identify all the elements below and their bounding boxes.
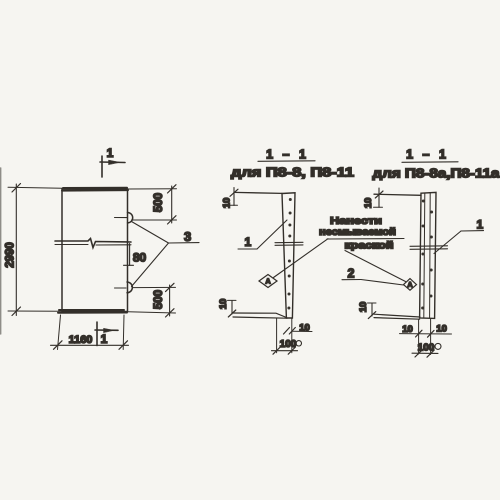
- break line lower: [55, 244, 131, 247]
- svg-text:1: 1: [245, 235, 252, 249]
- strip bar right inner line right: [429, 193, 432, 317]
- dim 500 bottom ticks: [166, 283, 175, 317]
- strip bar right inner line left: [424, 194, 425, 318]
- title underline middle: [258, 160, 315, 163]
- panel bottom edge thick line: [58, 310, 127, 313]
- dim 80 line: [129, 244, 131, 266]
- dim 10 middle top tick slash: [230, 189, 238, 196]
- svg-text:А: А: [407, 282, 412, 289]
- leader from top hook to label 3: [132, 222, 169, 244]
- svg-text:для П8-8а,П8-11а: для П8-8а,П8-11а: [373, 167, 500, 181]
- break line across right bar: [410, 246, 448, 250]
- panel top edge thick line: [62, 188, 128, 191]
- label 2 leader to right diamond: [361, 280, 404, 286]
- lifting hook bottom: [127, 282, 132, 293]
- dim 2990 line: [15, 184, 17, 316]
- svg-text:80: 80: [133, 251, 147, 265]
- dim 500 top ticks: [168, 185, 177, 224]
- bottom flange middle lower line: [233, 317, 287, 318]
- leader diamond middle to text: [274, 239, 329, 278]
- dim 10 middle top tick bottom: [229, 204, 238, 206]
- dim 10 right bottom line: [371, 303, 373, 316]
- svg-text:2: 2: [348, 267, 355, 281]
- dim 500 bottom line: [169, 285, 171, 316]
- svg-text:10: 10: [358, 302, 369, 313]
- svg-text:10: 10: [299, 323, 310, 334]
- svg-text:1: 1: [477, 218, 484, 232]
- leader from bottom hook to label 3: [132, 243, 169, 287]
- bottom flange right upper line: [374, 314, 420, 317]
- dim 10-10 right shelf line: [400, 333, 452, 335]
- svg-text:Нанести: Нанести: [330, 216, 382, 227]
- dim 80 tick bottom: [124, 264, 134, 266]
- dim 1160 extension left: [58, 315, 61, 350]
- dim 500 top extension lower: [132, 219, 177, 221]
- svg-text:1 – 1: 1 – 1: [266, 148, 309, 162]
- dim 10 middle top line: [233, 188, 235, 206]
- title underline right: [402, 161, 458, 164]
- dim 500 bottom extension lower: [128, 312, 176, 313]
- svg-text:1 – 1: 1 – 1: [406, 148, 449, 162]
- dim 500 top line: [171, 186, 173, 223]
- dim 10 right top line: [378, 188, 380, 207]
- label 1 right shelf: [461, 230, 484, 232]
- anchor dots right bar: [421, 200, 433, 310]
- svg-text:100: 100: [418, 343, 435, 354]
- svg-text:10: 10: [402, 324, 413, 335]
- hook bottom stem: [115, 287, 127, 289]
- strip bar right outline: [420, 192, 436, 318]
- dim 10 right top tick: [374, 206, 383, 208]
- break line upper with zigzag: [55, 239, 131, 248]
- dim 10 strip middle: slashes: [284, 328, 296, 335]
- dim 10 middle bottom slash: [228, 310, 236, 317]
- anchor dots middle bar: [287, 198, 291, 310]
- marking diamond middle: [259, 275, 277, 288]
- dim 10 strip middle shelf: [292, 330, 312, 332]
- svg-text:для П8-8, П8-11: для П8-8, П8-11: [231, 166, 354, 180]
- svg-text:500: 500: [153, 290, 165, 309]
- section marker 1 top: cut stroke: [101, 156, 103, 177]
- svg-text:10: 10: [363, 198, 374, 209]
- dim 2990 tick bottom: [12, 307, 21, 316]
- dim 1160 line: [51, 344, 129, 346]
- label 2 shelf: [342, 279, 361, 281]
- dim 10-10 right slashes: [416, 330, 435, 337]
- dim 2990 tick top: [12, 184, 21, 193]
- leader note text to right diamond: [345, 251, 406, 282]
- dim 100 middle slashes: [273, 347, 296, 354]
- svg-text:500: 500: [153, 193, 165, 212]
- svg-text:10: 10: [218, 299, 229, 310]
- dim 1160 ticks: [54, 341, 128, 350]
- section marker 1 top: view arrow: [100, 161, 125, 164]
- dim 10 right bottom slash: [368, 312, 376, 319]
- svg-text:2990: 2990: [5, 242, 17, 268]
- dim 100 middle circle flourish: [296, 341, 301, 346]
- label 1 right leader: [434, 231, 461, 254]
- extension lines below right bar: [419, 319, 431, 355]
- dim 100 right line: [412, 352, 438, 354]
- hook top stem: [115, 217, 128, 219]
- top flange line middle: [234, 192, 282, 193]
- svg-text:3: 3: [184, 229, 191, 244]
- label 1 middle shelf: [238, 248, 257, 250]
- svg-text:1160: 1160: [69, 334, 93, 346]
- scan edge artifact left border: [0, 168, 2, 334]
- note underline shelf: [327, 238, 404, 241]
- strip bar middle: [282, 193, 295, 318]
- dim 2990 extension bottom: [8, 310, 62, 312]
- bottom flange middle upper line: [233, 313, 287, 318]
- extension lines below middle bar: [277, 318, 292, 353]
- break line across middle bar: [275, 242, 303, 245]
- label 1 middle leader: [257, 220, 287, 249]
- section marker 1 bottom: view arrow: [95, 329, 118, 331]
- dim 100 right circle flourish: [435, 343, 441, 349]
- svg-text:несмываемой: несмываемой: [319, 227, 396, 238]
- marking diamond right: [404, 279, 417, 291]
- bottom flange right lower line: [374, 318, 420, 320]
- top flange line right: [374, 194, 421, 195]
- dim 1160 extension right: [122, 315, 125, 350]
- svg-text:1: 1: [101, 332, 108, 346]
- dim 10 right bottom tick: [368, 302, 377, 304]
- dim 500 top extension upper: [128, 188, 177, 190]
- svg-text:1: 1: [107, 146, 114, 160]
- label 3 shelf: [169, 242, 200, 244]
- dim 10 middle bottom line: [231, 301, 233, 315]
- svg-text:10: 10: [436, 323, 447, 334]
- dim 100 middle line: [272, 350, 298, 352]
- dim 100 right slashes: [415, 350, 434, 357]
- lifting hook top: [128, 213, 133, 223]
- svg-text:краской: краской: [345, 241, 394, 252]
- section marker 1 bottom: cut stroke: [96, 322, 98, 346]
- dim 10 middle bottom tick top: [228, 299, 237, 301]
- svg-text:100: 100: [280, 339, 297, 350]
- dim 10 right top slash: [375, 191, 383, 198]
- panel outline rectangle: [62, 189, 128, 312]
- dim 2990 extension top: [8, 187, 62, 188]
- svg-text:А: А: [265, 279, 270, 286]
- svg-text:10: 10: [222, 198, 233, 209]
- dim 500 bottom extension upper: [132, 286, 176, 288]
